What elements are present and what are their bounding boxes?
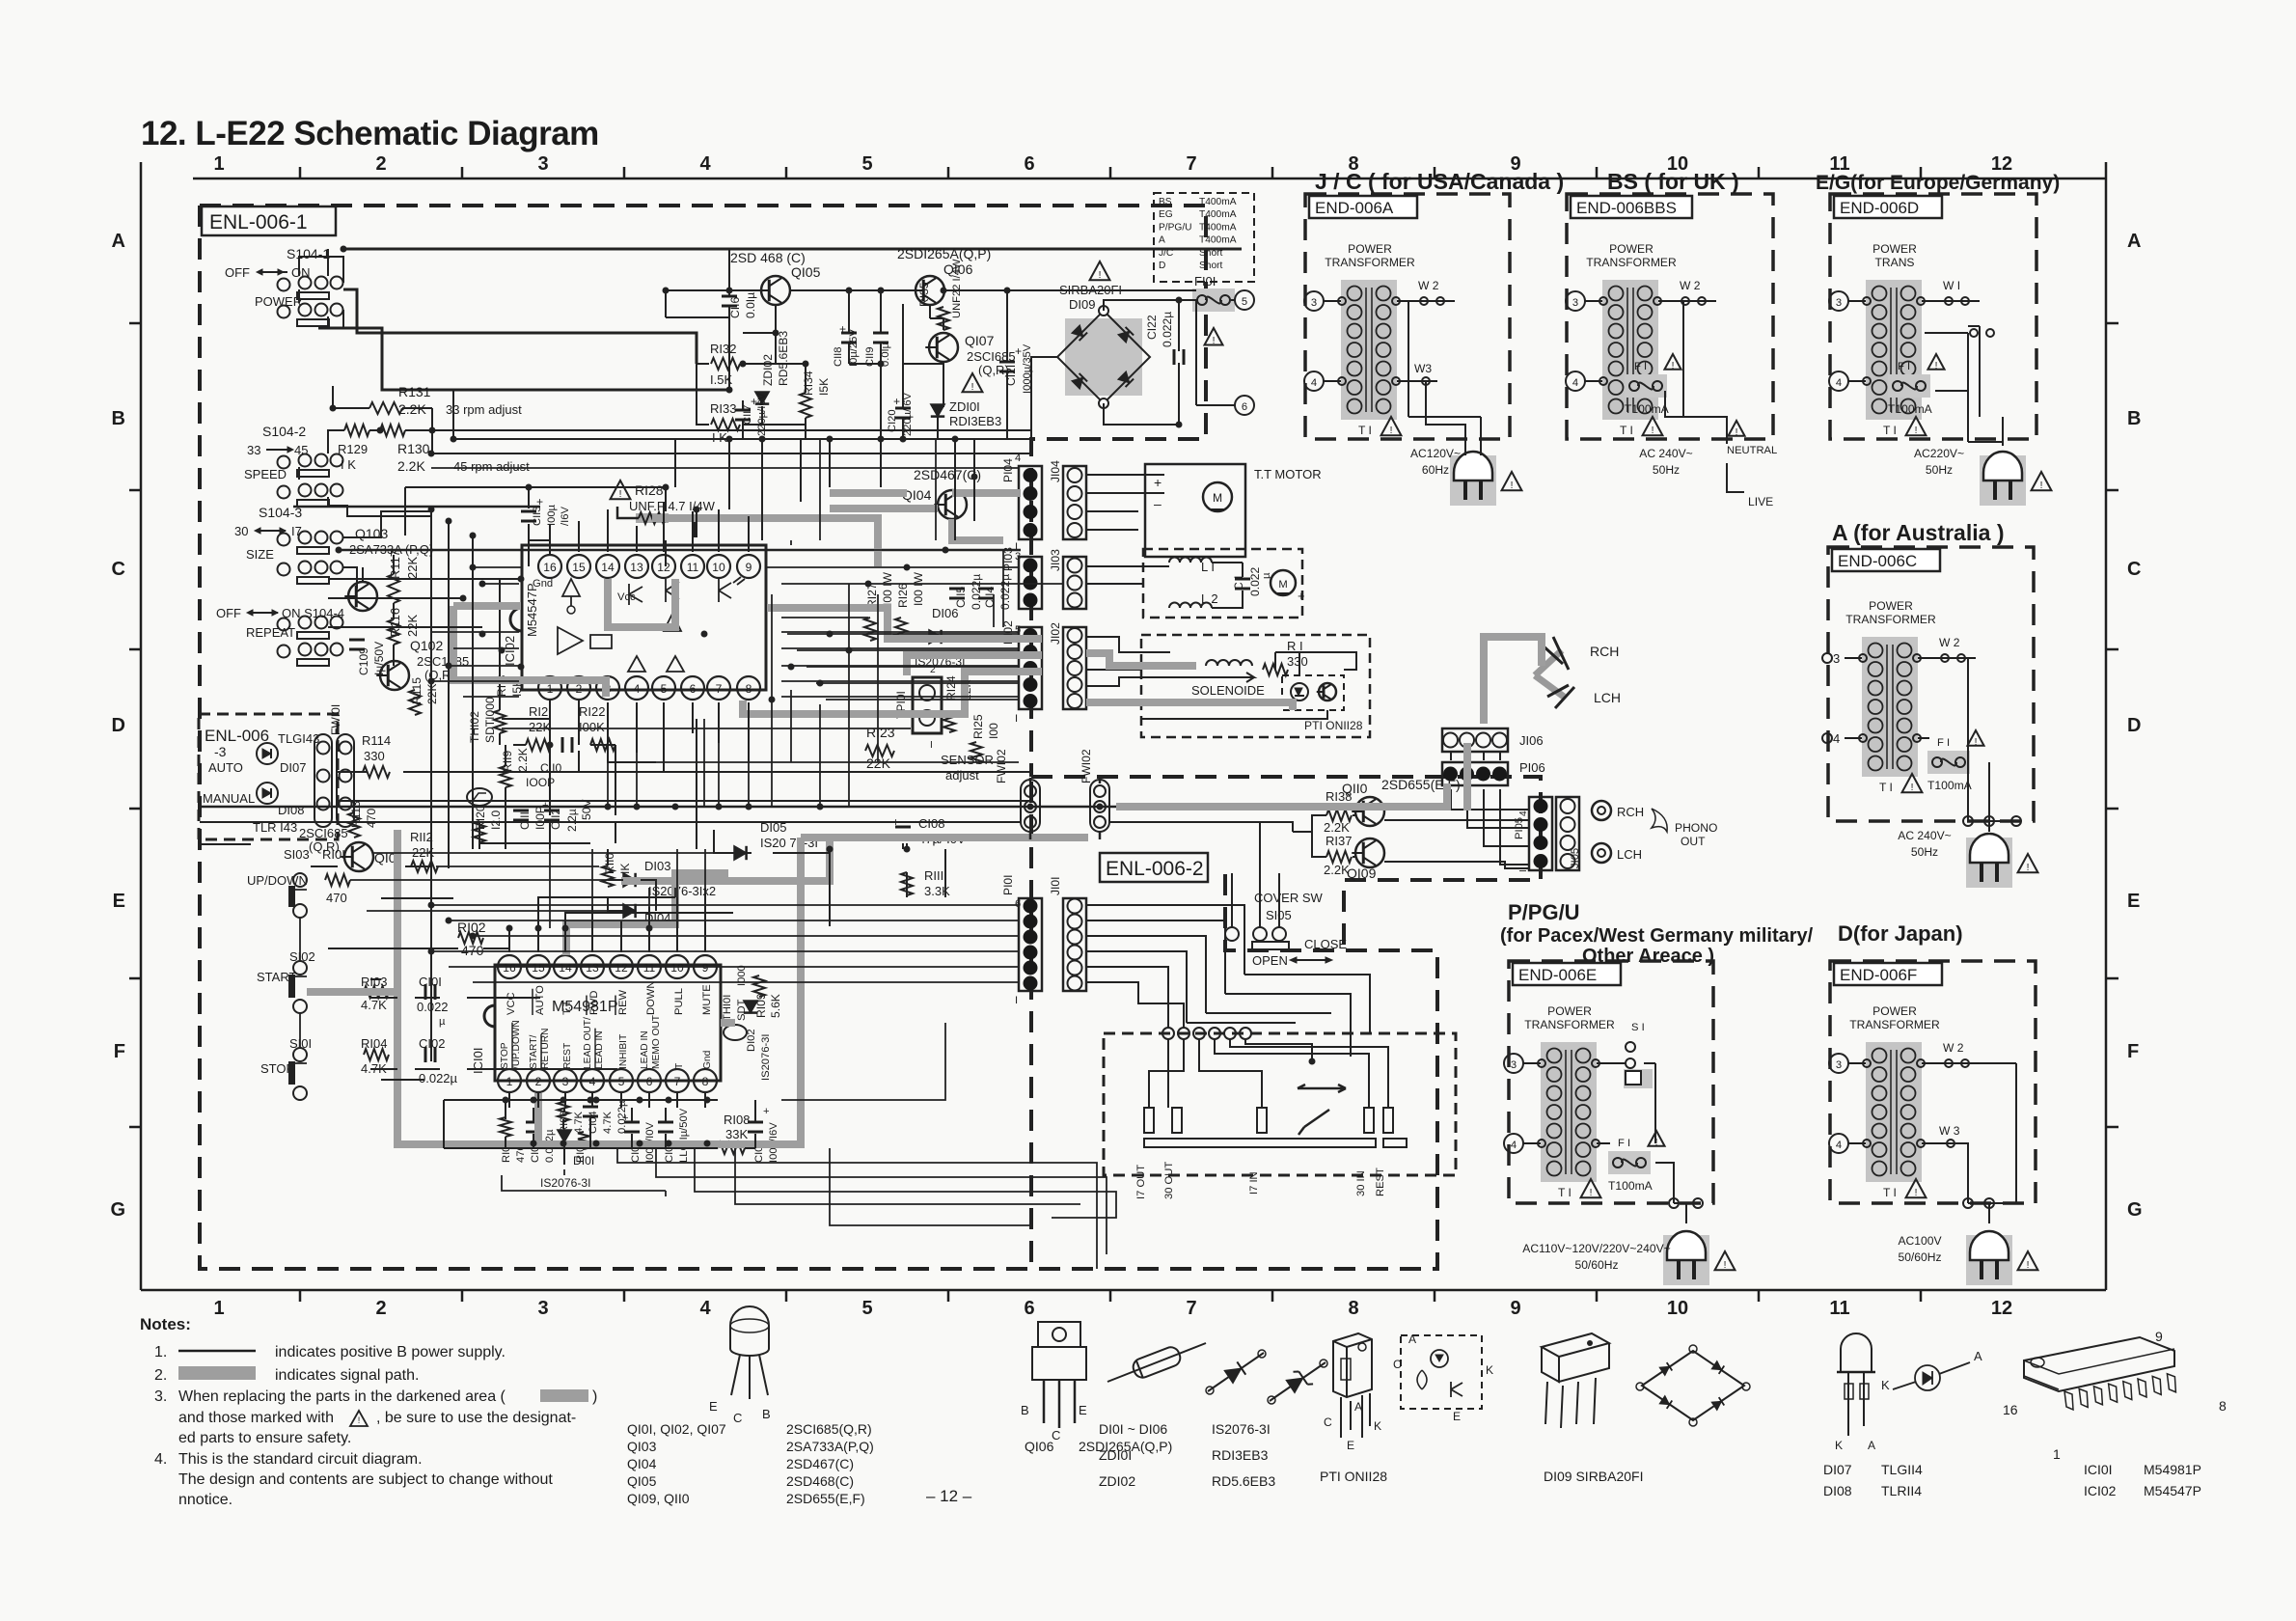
svg-text:4: 4: [1511, 1140, 1517, 1151]
svg-text:10: 10: [1667, 1298, 1688, 1319]
svg-text:B: B: [2127, 408, 2141, 429]
svg-text:POWER: POWER: [1547, 1004, 1592, 1018]
IC101 pin 1: [498, 1069, 521, 1092]
svg-text:2.2K: 2.2K: [1324, 820, 1350, 835]
svg-text:JI03: JI03: [1049, 549, 1062, 571]
svg-text:COVER SW: COVER SW: [1254, 891, 1324, 905]
svg-text:MEMO OUT: MEMO OUT: [651, 1015, 662, 1069]
svg-text:S I: S I: [1631, 1022, 1645, 1033]
svg-text:BS ( for UK ): BS ( for UK ): [1607, 169, 1739, 194]
svg-text:T400mA: T400mA: [1199, 197, 1237, 207]
svg-text:0.022µ: 0.022µ: [998, 574, 1012, 610]
svg-text:7: 7: [1186, 1298, 1196, 1319]
svg-text:QI03: QI03: [627, 1439, 657, 1454]
svg-text:RI25: RI25: [971, 714, 985, 739]
svg-text:RI28: RI28: [635, 482, 664, 498]
svg-text:K: K: [1835, 1439, 1843, 1452]
wire size switch net: [343, 511, 432, 666]
svg-text:9: 9: [702, 961, 709, 975]
svg-text:3: 3: [537, 1298, 548, 1319]
svg-text:12: 12: [615, 961, 628, 975]
svg-text:indicates signal path.: indicates signal path.: [275, 1367, 419, 1384]
svg-text:I5K: I5K: [817, 378, 831, 396]
svg-text:!: !: [1213, 336, 1216, 346]
IC102 pin 4: [625, 676, 648, 700]
svg-text:PI04: PI04: [1001, 458, 1015, 482]
svg-text:I: I: [1518, 869, 1529, 872]
svg-text:TRANS: TRANS: [1875, 256, 1915, 269]
END-006C box: [1828, 547, 2034, 821]
IC102 pin 6: [681, 676, 704, 700]
svg-text:50Hz: 50Hz: [1653, 463, 1680, 477]
svg-text:I K: I K: [341, 457, 356, 472]
svg-text:F I: F I: [1898, 361, 1910, 372]
svg-text:MUTE: MUTE: [701, 984, 713, 1015]
svg-text:!: !: [1099, 270, 1102, 281]
svg-text:RI22: RI22: [579, 704, 605, 719]
IC101 pin 3: [554, 1069, 577, 1092]
svg-text:9: 9: [1510, 1298, 1520, 1319]
IC102 pin 3: [596, 676, 619, 700]
svg-text:ENL-006-2: ENL-006-2: [1106, 858, 1204, 880]
svg-text:3: 3: [562, 1075, 569, 1088]
svg-text:I2.0: I2.0: [489, 810, 503, 830]
svg-text:!: !: [619, 489, 622, 500]
svg-text:5: 5: [861, 1298, 872, 1319]
svg-text:7: 7: [674, 1075, 681, 1088]
svg-text:4: 4: [699, 1298, 711, 1319]
svg-text:30: 30: [234, 524, 248, 538]
svg-text:!: !: [1652, 426, 1654, 436]
svg-text:RDI3EB3: RDI3EB3: [949, 414, 1001, 428]
ENL-006-2 label: [1100, 853, 1208, 882]
svg-text:+: +: [1015, 344, 1022, 358]
svg-text:470: 470: [326, 891, 347, 905]
wire END-006F secondary to plug: [1951, 1063, 2016, 1223]
svg-text:16: 16: [503, 961, 516, 975]
right border: [2105, 162, 2108, 1290]
junction dots extra: [971, 474, 978, 481]
svg-text:T I: T I: [1558, 1186, 1572, 1199]
svg-text:/I6V: /I6V: [560, 507, 571, 526]
svg-text:DI0I: DI0I: [573, 1154, 594, 1168]
svg-text:22K: 22K: [529, 720, 551, 734]
speed/size selector switch box: [1104, 1033, 1456, 1175]
svg-text:AUTO: AUTO: [534, 985, 546, 1015]
svg-text:2: 2: [535, 1075, 542, 1088]
svg-text:50/60Hz: 50/60Hz: [1898, 1250, 1941, 1264]
svg-text:FWI02: FWI02: [995, 749, 1008, 783]
svg-text:3.: 3.: [154, 1388, 167, 1405]
IC101 pin 11: [638, 955, 661, 978]
svg-text:!: !: [2027, 1260, 2030, 1271]
IC102 pin 14: [596, 555, 619, 578]
wire J103 to spindle: [1086, 563, 1243, 608]
wire extra verticals: [550, 439, 1003, 928]
svg-text:DI07: DI07: [1823, 1462, 1852, 1477]
svg-text:3: 3: [1511, 1059, 1517, 1071]
svg-text:LCH: LCH: [1617, 847, 1642, 862]
svg-text:4: 4: [589, 1075, 596, 1088]
svg-text:B: B: [112, 408, 125, 429]
svg-text:CI20: CI20: [887, 409, 898, 432]
svg-text:PULL: PULL: [673, 988, 685, 1015]
svg-text:PTI ONII28: PTI ONII28: [1320, 1469, 1387, 1484]
svg-text:E: E: [113, 891, 125, 912]
wire vertical buses: [431, 439, 974, 1061]
svg-text:I: I: [1015, 713, 1018, 725]
svg-text:OFF: OFF: [225, 265, 250, 280]
svg-text:4.: 4.: [154, 1451, 167, 1468]
IC102 pin 9: [737, 555, 760, 578]
svg-text:A: A: [112, 231, 125, 252]
svg-text:LEAD OUT/: LEAD OUT/: [583, 1017, 593, 1069]
svg-text:DI03: DI03: [644, 859, 670, 873]
svg-text:11: 11: [643, 961, 656, 975]
svg-text:F: F: [2127, 1041, 2139, 1062]
transistor Q109: [1355, 838, 1384, 867]
svg-text:30 IN: 30 IN: [1355, 1170, 1367, 1196]
svg-text:5: 5: [661, 682, 668, 696]
top ruler: [193, 178, 2106, 180]
photo interrupter PT1: [1282, 675, 1344, 710]
IC102 pin 8: [737, 676, 760, 700]
svg-text:POWER: POWER: [1872, 1004, 1917, 1018]
svg-text:B: B: [1021, 1403, 1029, 1417]
IC101 pin 13: [581, 955, 604, 978]
svg-text:4.7K: 4.7K: [573, 1111, 585, 1134]
svg-text:FWI0I: FWI0I: [329, 704, 342, 735]
svg-text:!: !: [1511, 481, 1514, 491]
svg-text:RD5.6EB3: RD5.6EB3: [1212, 1473, 1275, 1489]
svg-text:E: E: [1453, 1410, 1461, 1423]
legend DIP-16 package: [2024, 1337, 2174, 1391]
legend LED symbol: [1915, 1365, 1940, 1390]
svg-text:The design and contents ar: The design and contents are subject to c…: [178, 1471, 553, 1488]
svg-text:JI0I: JI0I: [1049, 877, 1062, 896]
svg-text:A: A: [1354, 1400, 1363, 1414]
svg-text:CII3: CII3: [532, 506, 543, 526]
svg-text:QI05: QI05: [627, 1473, 657, 1489]
svg-text:0.022µ: 0.022µ: [970, 574, 983, 610]
svg-text:2SD467(C): 2SD467(C): [786, 1456, 854, 1471]
svg-text:I7: I7: [291, 524, 302, 538]
END-006A box: [1305, 194, 1510, 439]
phono jack LCH: [1592, 843, 1611, 863]
zener ZD101 RD13EB3: [931, 404, 944, 417]
svg-text:16: 16: [2003, 1402, 2018, 1417]
svg-text:UNF22 I/4W: UNF22 I/4W: [951, 259, 963, 318]
svg-text:REW: REW: [617, 989, 629, 1015]
svg-text:4: 4: [1311, 377, 1317, 389]
IC101 pin 9: [694, 955, 717, 978]
svg-text:DI09: DI09: [1069, 297, 1095, 312]
svg-text:C: C: [1393, 1358, 1402, 1371]
legend diode symbol: [1208, 1353, 1264, 1391]
svg-text:RI23: RI23: [866, 725, 895, 740]
svg-text:A: A: [1868, 1439, 1876, 1452]
IC101 pin 5: [610, 1069, 633, 1092]
svg-text:9: 9: [746, 561, 752, 574]
svg-text:RI26: RI26: [896, 583, 910, 608]
IC101 pin 16: [498, 955, 521, 978]
svg-text:2.: 2.: [154, 1367, 167, 1384]
svg-text:R114: R114: [362, 733, 391, 748]
svg-text:SENSOR: SENSOR: [941, 753, 994, 767]
svg-text:5: 5: [618, 1075, 625, 1088]
IC101 pin 6: [638, 1069, 661, 1092]
svg-text:THI0I: THI0I: [722, 995, 733, 1021]
svg-text:A: A: [1408, 1333, 1417, 1346]
solenoid coil: [1206, 660, 1252, 666]
selector slider: [1298, 1085, 1346, 1092]
svg-text:THI02: THI02: [468, 711, 481, 743]
svg-text:POWER: POWER: [255, 294, 302, 309]
svg-text:JI04: JI04: [1049, 460, 1062, 482]
wire END-006D secondary to plug: [1925, 326, 2003, 446]
svg-text:E/G(for Europe/Germany): E/G(for Europe/Germany): [1816, 172, 2060, 194]
svg-text:1: 1: [2053, 1446, 2061, 1462]
phono jack RCH: [1592, 801, 1611, 820]
svg-text:B: B: [762, 1407, 771, 1421]
wire END-006C secondary to plug: [1968, 658, 2016, 832]
svg-text:-3: -3: [214, 744, 227, 759]
resistor R128 UNF 4.7: [611, 481, 631, 499]
svg-text:CI0I: CI0I: [419, 975, 442, 989]
svg-text:T100mA: T100mA: [1888, 402, 1933, 416]
svg-text:END-006A: END-006A: [1315, 199, 1394, 217]
svg-text:I00K: I00K: [579, 720, 605, 734]
svg-text:C: C: [112, 559, 125, 580]
svg-text:P/PG/U: P/PG/U: [1159, 222, 1192, 233]
selector contacts: [1144, 1108, 1154, 1133]
svg-text:14: 14: [601, 561, 615, 574]
svg-text:2: 2: [375, 153, 386, 175]
svg-text:14: 14: [559, 961, 572, 975]
svg-text:W 2: W 2: [1680, 279, 1701, 292]
wire horizontal mid buses: [200, 415, 1031, 844]
svg-text:TRANSFORMER: TRANSFORMER: [1586, 256, 1677, 269]
svg-text:AC120V~: AC120V~: [1410, 447, 1461, 460]
wire FW102 row: [200, 778, 1116, 839]
svg-text:END-006BBS: END-006BBS: [1576, 199, 1677, 217]
svg-text:AUTO: AUTO: [208, 760, 243, 775]
svg-text:!: !: [1915, 1188, 1918, 1198]
svg-text:50Hz: 50Hz: [1926, 463, 1953, 477]
svg-text:!: !: [1975, 737, 1978, 748]
svg-text:R129: R129: [338, 442, 368, 456]
svg-text:CII8: CII8: [833, 346, 844, 367]
svg-text:PHONO: PHONO: [1675, 821, 1717, 835]
svg-text:5: 5: [1242, 296, 1247, 308]
svg-text:ENL-006-1: ENL-006-1: [209, 211, 308, 234]
svg-text:QI05: QI05: [791, 264, 821, 280]
svg-text:A: A: [1974, 1349, 1982, 1363]
svg-text:RI02: RI02: [457, 920, 486, 935]
svg-text:DI08: DI08: [278, 803, 304, 817]
svg-text:I: I: [1015, 995, 1018, 1006]
svg-text:8: 8: [1348, 1298, 1358, 1319]
svg-text:3: 3: [1836, 1059, 1842, 1071]
wire lower distribution rows: [288, 728, 1031, 1063]
svg-text:+: +: [893, 395, 900, 408]
IC102 pin 1: [538, 676, 561, 700]
label PHONO OUT: [1652, 809, 1667, 832]
svg-text:2: 2: [576, 682, 583, 696]
svg-text:A (for Australia ): A (for Australia ): [1832, 520, 2004, 545]
svg-text:7: 7: [1186, 153, 1196, 175]
svg-text:This is the standard circu: This is the standard circuit diagram.: [178, 1451, 423, 1468]
IC102 pin 16: [538, 555, 561, 578]
svg-text:RI38: RI38: [1326, 789, 1352, 804]
svg-text:M: M: [1213, 491, 1222, 505]
svg-text:!: !: [971, 382, 974, 393]
wire J102 to solenoid: [1086, 637, 1356, 719]
wire IC101 pin drops: [508, 928, 510, 952]
svg-text:RCH: RCH: [1590, 644, 1619, 659]
svg-text:T.T MOTOR: T.T MOTOR: [1254, 467, 1322, 481]
svg-text:0.022: 0.022: [1248, 566, 1262, 596]
svg-text:ZDI0I: ZDI0I: [1099, 1447, 1132, 1463]
IC102 pin 12: [652, 555, 675, 578]
svg-text:UP/DOWN: UP/DOWN: [247, 873, 308, 888]
svg-text:3.3K: 3.3K: [924, 884, 950, 898]
svg-text:IK: IK: [618, 864, 632, 874]
svg-text:1.: 1.: [154, 1344, 167, 1360]
svg-text:13: 13: [586, 961, 599, 975]
svg-text:E: E: [2127, 891, 2140, 912]
IC101 pin 7: [666, 1069, 689, 1092]
svg-text:PI06: PI06: [1519, 760, 1545, 775]
svg-text:0.022: 0.022: [417, 1000, 449, 1014]
svg-text:+: +: [1154, 475, 1162, 490]
svg-text:nnotice.: nnotice.: [178, 1492, 232, 1508]
svg-text:!: !: [1736, 427, 1738, 438]
svg-text:6: 6: [690, 682, 697, 696]
wire right edge verticals: [714, 830, 945, 926]
svg-text:T100mA: T100mA: [1625, 402, 1670, 416]
svg-text:–: –: [1154, 496, 1162, 511]
legend zener symbol: [1270, 1362, 1326, 1401]
IC102 pin 11: [681, 555, 704, 578]
svg-text:50/60Hz: 50/60Hz: [1574, 1258, 1618, 1272]
legend TO-220 package Q106: [1038, 1322, 1080, 1347]
svg-text:1: 1: [213, 153, 224, 175]
svg-text:T I: T I: [1358, 424, 1372, 437]
svg-text:C109: C109: [357, 647, 370, 675]
svg-text:4: 4: [1833, 731, 1840, 746]
svg-text:RII2: RII2: [410, 830, 433, 844]
fuse rating table: [1154, 193, 1254, 282]
svg-text:8: 8: [702, 1075, 709, 1088]
svg-text:RI34: RI34: [802, 371, 815, 396]
svg-text:R131: R131: [398, 384, 431, 399]
svg-text:ZDI02: ZDI02: [761, 354, 775, 386]
svg-text:T I: T I: [1620, 424, 1633, 437]
svg-text:DI07: DI07: [280, 760, 306, 775]
END-006F box: [1830, 961, 2036, 1203]
svg-text:CI22: CI22: [1145, 315, 1159, 340]
svg-text:12: 12: [1991, 1298, 2012, 1319]
svg-text:R I: R I: [1287, 639, 1303, 653]
wire S104-1 to power section: [343, 249, 1242, 364]
svg-text:I: I: [930, 740, 933, 751]
wire phono section: [1116, 807, 1529, 868]
svg-text:!: !: [2040, 481, 2043, 491]
svg-text:indicates positive B power sup: indicates positive B power supply.: [275, 1344, 506, 1360]
IC101 pin 8: [694, 1069, 717, 1092]
svg-text:T: T: [674, 1063, 685, 1069]
svg-text:5: 5: [861, 153, 872, 175]
svg-text:F I: F I: [1618, 1138, 1630, 1149]
svg-text:C: C: [2127, 559, 2141, 580]
svg-text:1: 1: [547, 682, 554, 696]
IC101 pin 10: [666, 955, 689, 978]
svg-text:D: D: [1159, 261, 1165, 271]
svg-text:CLOSE: CLOSE: [1304, 937, 1347, 951]
svg-text:SPEED: SPEED: [244, 467, 287, 481]
wire J104 to motor: [1086, 475, 1164, 530]
IC101 M54981P: [484, 965, 721, 1081]
svg-text:10: 10: [670, 961, 684, 975]
END-006D box: [1830, 194, 2036, 439]
svg-text:M54981P: M54981P: [2144, 1462, 2201, 1477]
T.T motor box: [1145, 464, 1245, 557]
wire J101 to selector: [1086, 905, 1244, 1028]
IC102 pin 5: [652, 676, 675, 700]
svg-text:RI08: RI08: [724, 1113, 750, 1127]
svg-text:LEAD IN: LEAD IN: [640, 1030, 650, 1069]
diode D101: [558, 1130, 571, 1142]
svg-text:ENL-006: ENL-006: [205, 727, 269, 745]
legend PT1 equivalent circuit: [1401, 1335, 1482, 1409]
ENL-006-1 board outline: [200, 206, 1206, 777]
svg-text:60Hz: 60Hz: [1422, 463, 1449, 477]
signal path traces: [307, 838, 1088, 1144]
svg-text:K: K: [1374, 1419, 1381, 1433]
svg-text:TLGII4: TLGII4: [1881, 1462, 1923, 1477]
svg-text:!: !: [1390, 426, 1393, 436]
svg-text:D(for Japan): D(for Japan): [1838, 921, 1963, 946]
svg-text:3: 3: [537, 153, 548, 175]
svg-text:11: 11: [1829, 1298, 1849, 1319]
svg-text:J / C ( for USA/Canada ): J / C ( for USA/Canada ): [1315, 169, 1564, 194]
IC101 pin 2: [527, 1069, 550, 1092]
svg-text:ICI02: ICI02: [2084, 1483, 2117, 1498]
svg-text:A: A: [2127, 231, 2141, 252]
diode D104: [623, 904, 636, 918]
svg-text:+: +: [763, 1106, 770, 1117]
svg-text:2.2K: 2.2K: [1324, 863, 1350, 877]
svg-text:ZDI02: ZDI02: [1099, 1473, 1135, 1489]
svg-text:6: 6: [1024, 153, 1034, 175]
svg-text:G: G: [110, 1199, 125, 1221]
svg-text:IS2076-3I: IS2076-3I: [1212, 1421, 1271, 1437]
svg-text:W 2: W 2: [1943, 1041, 1964, 1055]
ENL-006-3 board outline: [199, 714, 338, 839]
svg-text:5.6K: 5.6K: [769, 994, 782, 1018]
svg-text:12: 12: [657, 561, 670, 574]
svg-text:µ: µ: [439, 1016, 446, 1028]
svg-text:RIII: RIII: [924, 868, 943, 883]
svg-text:33K: 33K: [725, 1127, 748, 1141]
svg-text:Q103: Q103: [355, 526, 388, 541]
svg-text:LLC Iµ/50V: LLC Iµ/50V: [678, 1108, 690, 1163]
svg-text:REST: REST: [562, 1043, 573, 1069]
svg-text:!: !: [1724, 1260, 1727, 1271]
svg-text:1: 1: [213, 1298, 224, 1319]
svg-text:M: M: [1278, 579, 1287, 591]
